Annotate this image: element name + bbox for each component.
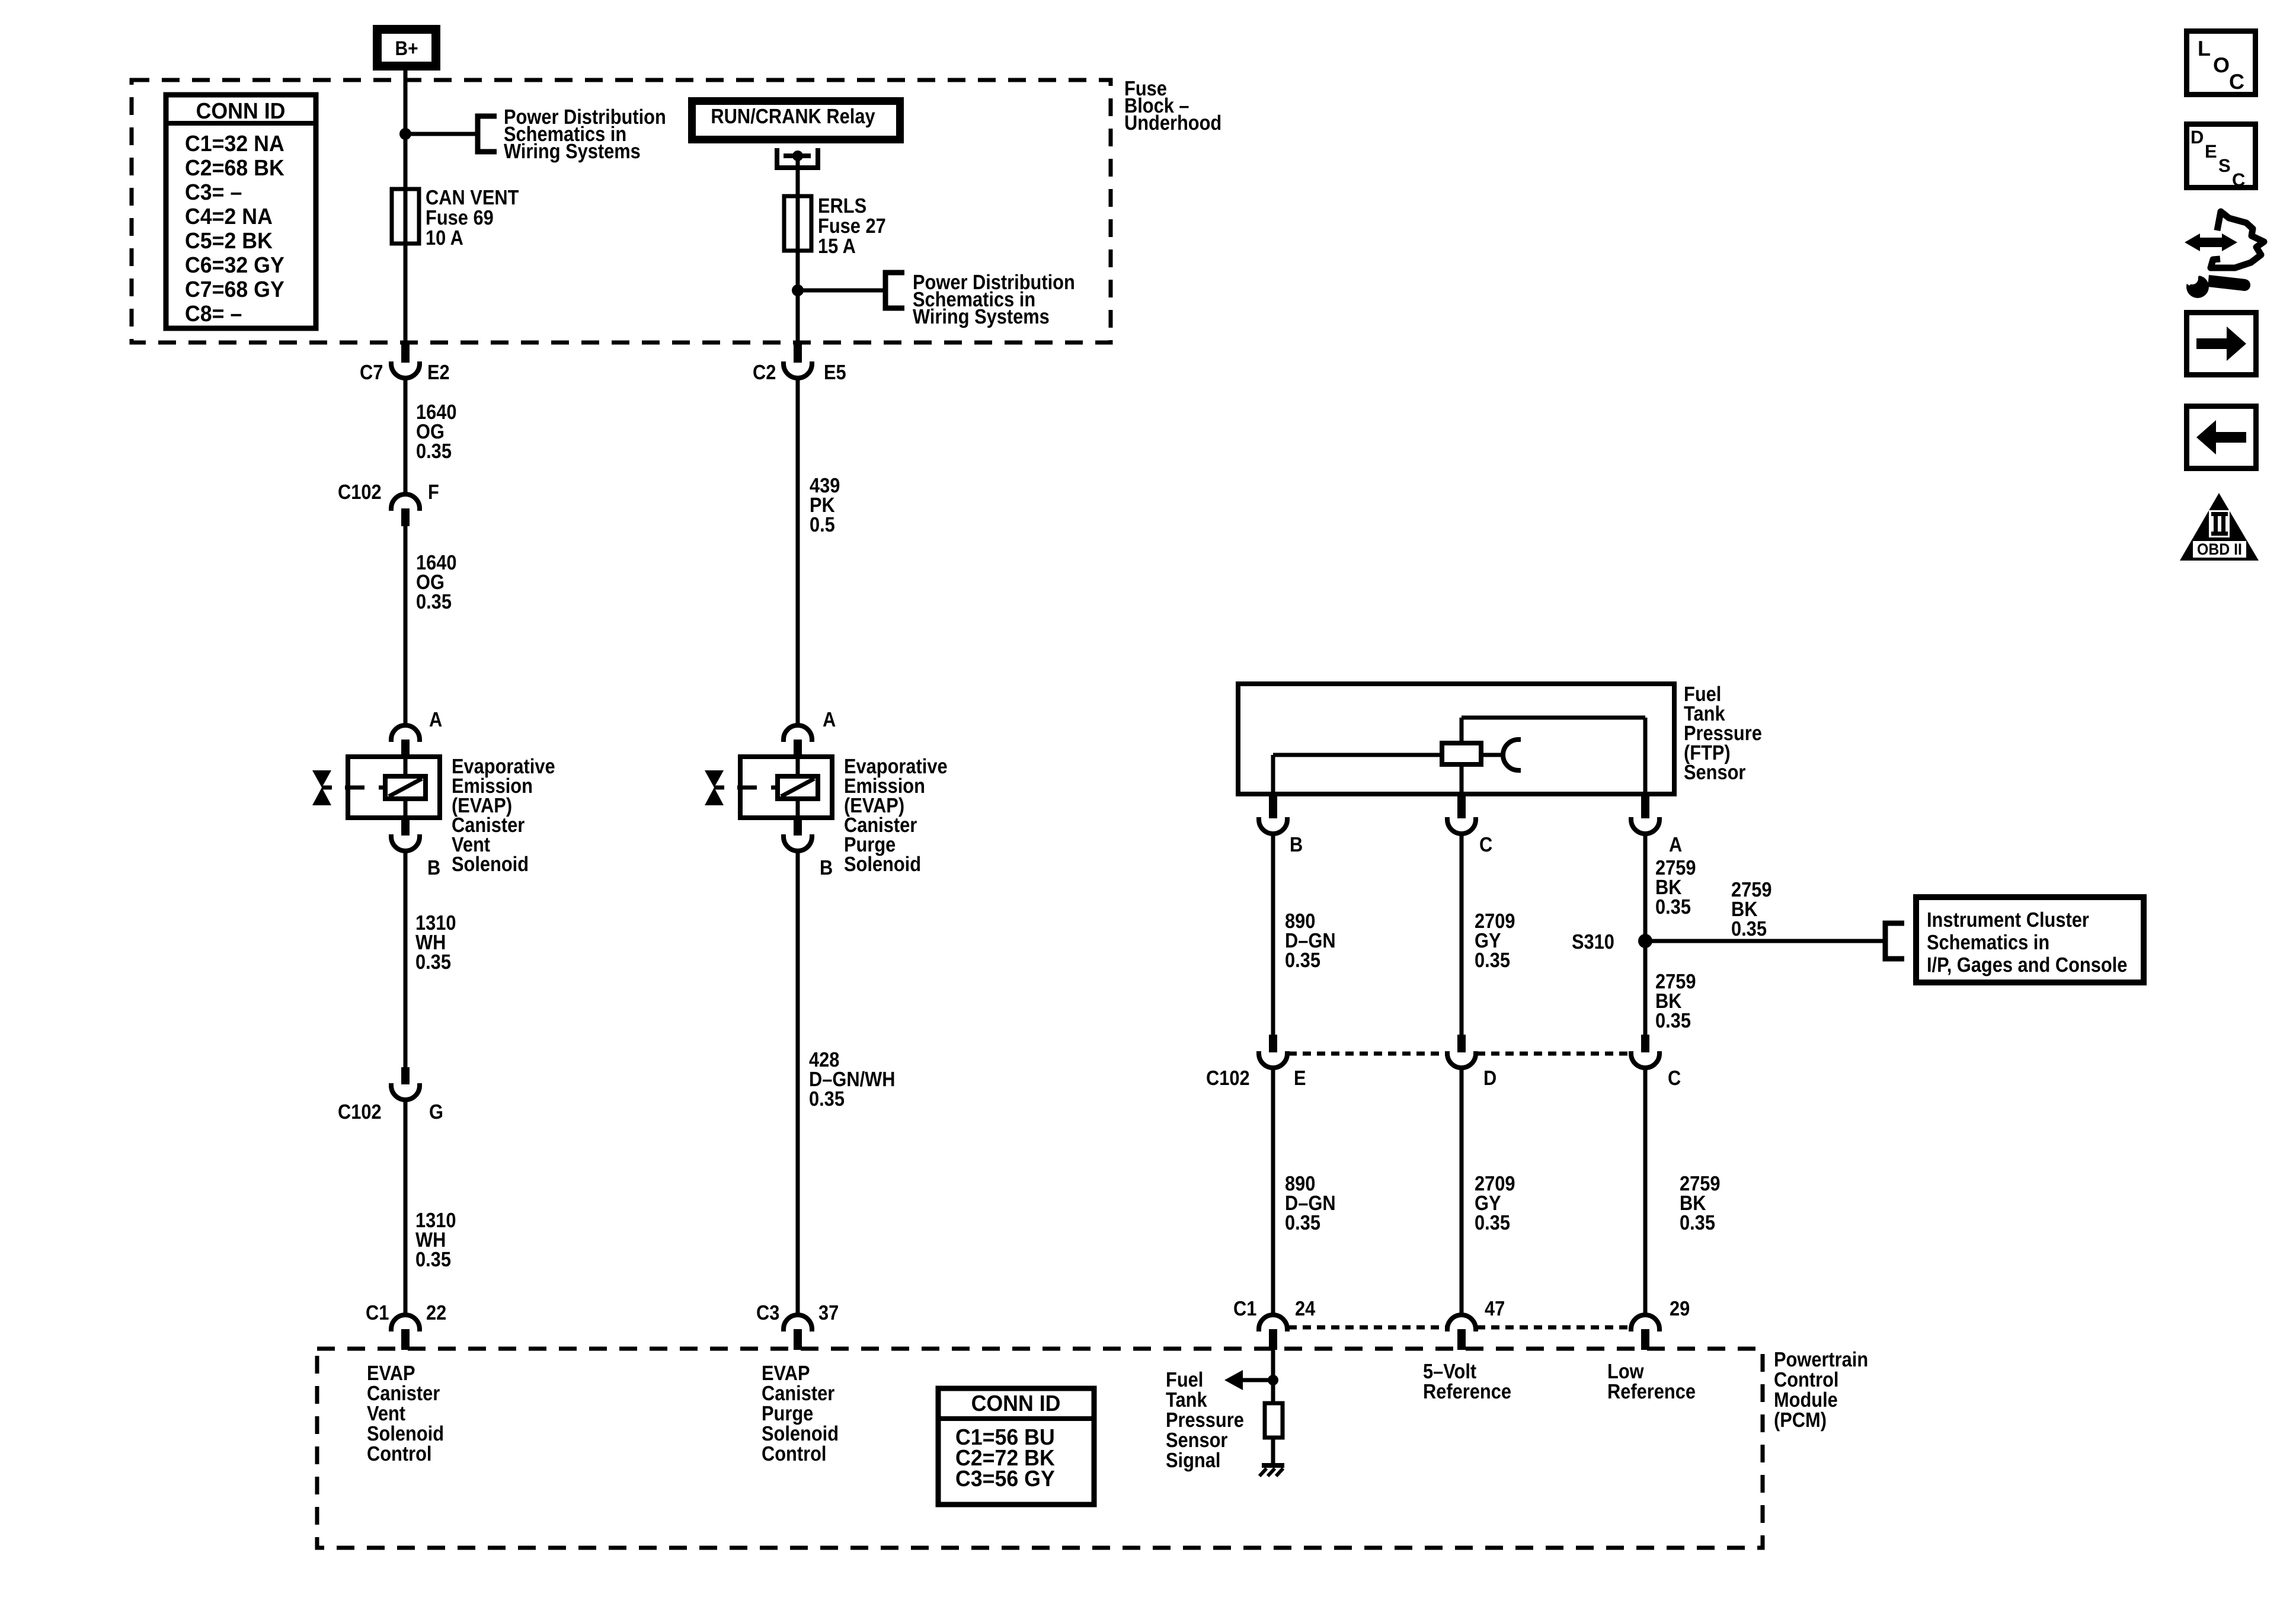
svg-text:10 A: 10 A — [426, 226, 463, 249]
junction dot col2 — [792, 284, 804, 296]
EVAP canister purge solenoid box — [740, 757, 832, 818]
svg-text:E: E — [1294, 1067, 1306, 1090]
connector C102/E — [1269, 1035, 1277, 1052]
connector B (purge solenoid) — [794, 818, 802, 836]
svg-text:Wiring Systems: Wiring Systems — [504, 140, 641, 163]
splice S310 — [1638, 934, 1652, 948]
svg-text:D: D — [1483, 1067, 1496, 1090]
svg-text:C3= –: C3= – — [185, 180, 242, 205]
reference bracket (power distribution 1) — [478, 116, 497, 152]
svg-text:CONN ID: CONN ID — [196, 99, 286, 124]
svg-text:I/P, Gages and Console: I/P, Gages and Console — [1927, 953, 2127, 977]
svg-text:0.35: 0.35 — [415, 950, 451, 974]
wire C102-D to PCM pin 47 — [1460, 1067, 1464, 1316]
svg-text:B: B — [427, 856, 440, 879]
Fuel Tank Pressure (FTP) Sensor box — [1238, 684, 1674, 794]
svg-text:0.35: 0.35 — [1680, 1211, 1715, 1234]
svg-text:S310: S310 — [1572, 930, 1614, 953]
wire coil to box bottom (purge) — [796, 799, 800, 818]
svg-text:C: C — [2232, 169, 2245, 190]
svg-text:C3: C3 — [756, 1301, 779, 1324]
svg-text:OBD II: OBD II — [2197, 540, 2242, 558]
svg-text:C1: C1 — [366, 1301, 389, 1324]
svg-text:C1: C1 — [1233, 1297, 1256, 1320]
connector pin B (FTP) — [1269, 794, 1277, 818]
icon back arrow box — [2184, 404, 2259, 471]
svg-text:A: A — [429, 708, 442, 731]
wire E2 to C102-F — [404, 377, 408, 495]
svg-text:G: G — [429, 1100, 443, 1124]
svg-text:Instrument Cluster: Instrument Cluster — [1927, 908, 2089, 932]
svg-text:29: 29 — [1670, 1297, 1690, 1320]
wire relay through ERLS fuse to connector E5 — [796, 156, 800, 343]
wire purge B to PCM pin 37 — [796, 850, 800, 1316]
svg-text:Solenoid: Solenoid — [844, 853, 921, 876]
wire C102-G to PCM pin 22 — [404, 1099, 408, 1316]
svg-text:0.5: 0.5 — [810, 513, 835, 536]
reference bracket (power distribution 2) — [885, 273, 904, 308]
svg-text:S: S — [2218, 155, 2231, 176]
wire coil to box bottom (vent) — [404, 799, 408, 818]
connector pin C (FTP) — [1457, 794, 1466, 818]
junction dot (signal) — [1268, 1375, 1278, 1385]
connector C7/E2 — [401, 343, 410, 363]
svg-text:0.35: 0.35 — [1655, 1009, 1691, 1032]
wire FTP-B to C102-E — [1271, 833, 1275, 1036]
icon symptom/wrench — [2185, 233, 2200, 251]
svg-text:0.35: 0.35 — [1731, 917, 1767, 940]
PCM internal: signal node wiring — [1271, 1349, 1275, 1404]
svg-text:E: E — [2205, 141, 2217, 162]
svg-text:C7=68 GY: C7=68 GY — [185, 277, 284, 302]
svg-text:D: D — [2191, 127, 2204, 148]
relay contact pin symbol — [777, 148, 818, 168]
svg-text:C1=32 NA: C1=32 NA — [185, 132, 284, 156]
connector C102/G — [401, 1067, 410, 1084]
connector C1/24 (PCM) — [1259, 1315, 1287, 1331]
svg-text:C2=68 BK: C2=68 BK — [185, 156, 284, 181]
dashed link C1 row — [1288, 1326, 1446, 1330]
svg-text:C102: C102 — [338, 1100, 382, 1124]
back arrow — [2216, 432, 2246, 443]
svg-text:E5: E5 — [824, 361, 846, 384]
fuse ERLS Fuse 27 15A — [784, 196, 811, 251]
svg-text:Control: Control — [762, 1442, 826, 1465]
wire branch to power distribution ref — [405, 132, 478, 136]
svg-text:C102: C102 — [338, 481, 382, 504]
svg-text:0.35: 0.35 — [1655, 895, 1691, 918]
connector C1/47 (PCM) — [1447, 1315, 1476, 1331]
connector pin A (FTP) — [1641, 794, 1649, 818]
svg-text:0.35: 0.35 — [1475, 949, 1510, 972]
connector C3/37 (PCM) — [784, 1315, 812, 1331]
wire into vent coil — [404, 759, 408, 776]
svg-text:A: A — [823, 708, 836, 731]
icon LOC box — [2184, 28, 2258, 97]
svg-text:A: A — [1669, 833, 1682, 856]
svg-text:CONN ID: CONN ID — [971, 1391, 1061, 1416]
wire S310 to instrument cluster ref — [1645, 939, 1885, 943]
connector A (purge solenoid) — [784, 725, 812, 742]
wire branch to power distribution ref 2 — [798, 289, 885, 293]
svg-text:O: O — [2213, 53, 2230, 77]
svg-text:0.35: 0.35 — [416, 590, 452, 613]
connector C1/29 (PCM) — [1631, 1315, 1659, 1331]
svg-text:Reference: Reference — [1607, 1380, 1696, 1403]
FTP inner top line — [1462, 716, 1645, 720]
power symbol B+ box — [373, 25, 440, 71]
wire E5 to purge solenoid pin A — [796, 377, 800, 726]
svg-text:0.35: 0.35 — [415, 1248, 451, 1271]
ground symbol — [1262, 1463, 1284, 1468]
svg-text:B: B — [820, 856, 833, 879]
FTP sensor element (pressure transducer) — [1442, 743, 1481, 764]
table CONN ID (fuse block) — [166, 95, 316, 328]
fuse CAN VENT Fuse 69 10A — [392, 189, 419, 244]
svg-text:(PCM): (PCM) — [1774, 1409, 1827, 1432]
arrow (signal out) — [1224, 1370, 1243, 1390]
valve symbol (purge) — [705, 770, 724, 788]
svg-text:B+: B+ — [395, 37, 418, 60]
svg-text:Underhood: Underhood — [1124, 111, 1221, 135]
FTP internal wiring — [1271, 755, 1275, 794]
svg-text:C2: C2 — [753, 361, 776, 384]
connector C1/22 (PCM) — [391, 1315, 420, 1331]
svg-text:0.35: 0.35 — [809, 1087, 845, 1110]
solenoid coil (vent) — [385, 776, 426, 799]
svg-text:0.35: 0.35 — [1285, 1211, 1320, 1234]
wire FTP-C to C102-D — [1460, 833, 1464, 1036]
Instrument Cluster reference box — [1916, 897, 2144, 982]
wire C102-C to PCM pin 29 — [1643, 1067, 1648, 1316]
svg-text:47: 47 — [1485, 1297, 1505, 1320]
svg-text:F: F — [428, 481, 439, 504]
valve symbol (vent) — [312, 770, 331, 788]
svg-text:C7: C7 — [360, 361, 383, 384]
svg-text:C: C — [1668, 1067, 1681, 1090]
wire sensor to wiper arc — [1481, 753, 1504, 757]
solenoid coil (purge) — [778, 776, 818, 799]
wire C102-F to solenoid pin A — [404, 526, 408, 726]
resistor (PCM pull) — [1265, 1403, 1283, 1438]
svg-text:Solenoid: Solenoid — [452, 853, 529, 876]
svg-text:Wiring Systems: Wiring Systems — [913, 305, 1050, 328]
wire B to C102-G — [404, 850, 408, 1070]
svg-text:L: L — [2198, 36, 2211, 60]
svg-text:0.35: 0.35 — [1475, 1211, 1510, 1234]
junction dot col1 — [399, 128, 411, 140]
EVAP canister vent solenoid box — [348, 757, 440, 818]
svg-text:E2: E2 — [427, 361, 450, 384]
svg-text:15 A: 15 A — [818, 235, 856, 258]
svg-text:Schematics in: Schematics in — [1927, 931, 2049, 954]
table CONN ID (PCM) — [938, 1388, 1094, 1505]
svg-text:24: 24 — [1295, 1297, 1316, 1320]
svg-text:Reference: Reference — [1423, 1380, 1511, 1403]
reference bracket (instrument cluster) — [1885, 923, 1904, 959]
wire B+ through CAN VENT fuse to connector E2 — [404, 68, 408, 343]
svg-text:C4=2 NA: C4=2 NA — [185, 204, 273, 229]
svg-text:C: C — [1479, 833, 1492, 856]
svg-text:B: B — [1290, 833, 1303, 856]
svg-text:C3=56 GY: C3=56 GY — [955, 1467, 1055, 1491]
wire into purge coil — [796, 759, 800, 776]
wire FTP-A to C102-C — [1643, 833, 1648, 1036]
svg-text:0.35: 0.35 — [1285, 949, 1320, 972]
svg-text:C8= –: C8= – — [185, 302, 242, 327]
svg-text:Control: Control — [367, 1442, 431, 1465]
svg-text:Signal: Signal — [1166, 1449, 1220, 1472]
svg-text:C6=32 GY: C6=32 GY — [185, 253, 284, 278]
forward arrow — [2196, 338, 2227, 349]
connector C102/F — [391, 494, 420, 511]
svg-text:Sensor: Sensor — [1684, 761, 1746, 784]
svg-text:C102: C102 — [1206, 1067, 1250, 1090]
svg-text:RUN/CRANK Relay: RUN/CRANK Relay — [711, 105, 875, 128]
svg-text:C: C — [2229, 69, 2244, 94]
svg-text:0.35: 0.35 — [416, 440, 452, 463]
wire C102-E to PCM pin 24 — [1271, 1067, 1275, 1316]
svg-text:C5=2 BK: C5=2 BK — [185, 229, 273, 254]
module box Fuse Block - Underhood (dashed) — [132, 80, 1111, 343]
wiper arc (open right) — [1503, 740, 1521, 770]
connector C102/C — [1641, 1035, 1649, 1052]
svg-text:22: 22 — [426, 1301, 446, 1324]
icon DESC box — [2184, 121, 2258, 190]
relay box RUN/CRANK Relay — [688, 97, 904, 143]
module box Powertrain Control Module (dashed) — [317, 1349, 1763, 1548]
icon forward arrow box — [2184, 310, 2259, 377]
icon OBD II triangle — [2180, 493, 2259, 561]
connector C2/E5 — [794, 343, 802, 363]
dashed link C102 row — [1288, 1052, 1446, 1056]
connector C102/D — [1457, 1035, 1466, 1052]
svg-text:37: 37 — [818, 1301, 839, 1324]
connector B (vent solenoid) — [401, 818, 410, 836]
connector A (vent solenoid) — [391, 725, 420, 742]
